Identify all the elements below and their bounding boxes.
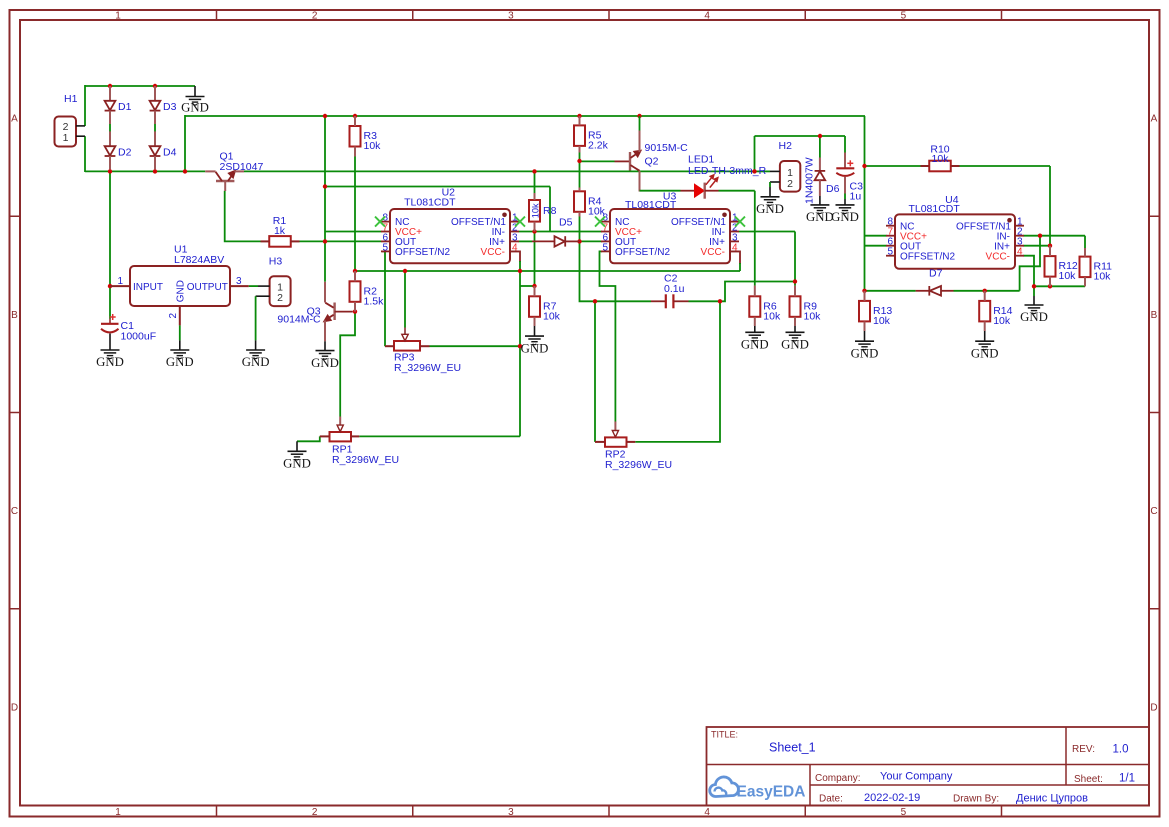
wire D1-D2 link	[109, 124, 111, 132]
wire U2 IN+ / D5 / U3 OUT y241.4	[519, 240, 533, 242]
U1 pin 1	[110, 285, 130, 287]
svg-text:LED-TH-3mm_R: LED-TH-3mm_R	[688, 165, 767, 177]
wire R7 branch y286	[520, 285, 535, 287]
svg-text:10k: 10k	[763, 310, 781, 322]
svg-text:Drawn By:: Drawn By:	[953, 794, 999, 805]
svg-text:VCC-: VCC-	[701, 247, 725, 258]
svg-text:2: 2	[312, 10, 318, 21]
svg-text:INPUT: INPUT	[133, 282, 163, 293]
diode D7	[916, 290, 929, 292]
svg-text:2: 2	[277, 292, 283, 304]
svg-text:B: B	[1151, 310, 1158, 321]
svg-text:10k: 10k	[932, 153, 950, 165]
wire U2 pin4 elbow	[510, 251, 520, 262]
svg-text:GND: GND	[311, 356, 339, 370]
wire R8 top lead to rail	[534, 171, 536, 193]
svg-text:D6: D6	[826, 183, 840, 195]
svg-text:C: C	[1150, 506, 1157, 517]
wire R10 net y166	[865, 165, 921, 167]
wire R1 to U2 OUT	[300, 240, 382, 242]
svg-text:H3: H3	[269, 256, 283, 268]
wire H1 pin2 riser	[84, 85, 86, 126]
diode D6	[819, 158, 821, 171]
trimmer RP3	[394, 341, 420, 351]
diode D3	[154, 86, 156, 101]
wire D5 junction down to C2 wire	[580, 241, 652, 301]
svg-text:C: C	[11, 506, 18, 517]
wire IN- feedback path	[1020, 236, 1040, 291]
ground (H2)	[769, 187, 771, 197]
resistor R10	[929, 161, 951, 172]
diode D5	[532, 240, 555, 242]
resistor R8 with rotated value	[529, 200, 540, 222]
svg-text:GND: GND	[741, 338, 769, 352]
svg-text:1N4007W: 1N4007W	[804, 157, 816, 204]
wire U3 pin4 elbow to bus	[730, 251, 740, 264]
svg-text:Q2: Q2	[645, 156, 659, 168]
ground (U1 pin2)	[179, 340, 181, 349]
wire corner x185	[184, 115, 186, 171]
svg-text:0.1u: 0.1u	[664, 283, 685, 295]
wire U4 VCC+ branch	[865, 235, 887, 237]
svg-text:D3: D3	[163, 101, 177, 113]
svg-text:VCC-: VCC-	[481, 247, 505, 258]
svg-text:2.2k: 2.2k	[588, 139, 609, 151]
svg-text:Company:: Company:	[815, 773, 861, 784]
svg-text:GND: GND	[181, 101, 209, 115]
svg-text:Your Company: Your Company	[880, 771, 953, 783]
svg-text:OFFSET/N2: OFFSET/N2	[615, 247, 670, 258]
ground (bridge top)	[194, 86, 196, 96]
wire C3 top lead	[844, 136, 846, 153]
wire Q2 collector to LED anode	[640, 190, 681, 192]
svg-text:1.5k: 1.5k	[364, 295, 385, 307]
svg-text:LED1: LED1	[688, 154, 714, 166]
ground (U4 VCC-)	[1033, 296, 1035, 305]
wire D2 junction down to C1 and U1 input	[109, 171, 111, 318]
svg-text:H2: H2	[779, 140, 793, 152]
wire U2 pin5 down to RP3 left	[382, 251, 386, 346]
svg-text:Sheet:: Sheet:	[1074, 774, 1103, 785]
wire D6 top lead	[819, 136, 821, 158]
svg-text:10k: 10k	[1059, 270, 1077, 282]
ground (R14)	[984, 331, 986, 341]
frame row ticks	[10, 215, 21, 217]
svg-text:4: 4	[512, 242, 518, 253]
svg-text:9014M-C: 9014M-C	[277, 313, 321, 325]
title block	[707, 727, 1150, 806]
junction dots	[108, 84, 112, 88]
svg-text:R_3296W_EU: R_3296W_EU	[394, 362, 461, 374]
svg-text:5: 5	[901, 10, 907, 21]
wire H3 pin2 to ground	[255, 296, 257, 340]
svg-text:OUTPUT: OUTPUT	[187, 282, 228, 293]
op-amp U3	[610, 209, 730, 263]
regulator U1	[130, 266, 230, 306]
svg-text:D: D	[11, 702, 18, 713]
wire R2 bottom to RP1 wiper	[340, 312, 355, 417]
wire U4 OUT branch	[865, 245, 887, 247]
wire D3-D4 link	[154, 124, 156, 132]
ground (C3)	[844, 199, 846, 205]
svg-text:2: 2	[312, 807, 318, 818]
diode D2	[109, 131, 111, 146]
svg-text:10k: 10k	[543, 310, 561, 322]
svg-text:1: 1	[63, 132, 69, 144]
wire main left rail y171	[85, 170, 205, 172]
svg-text:GND: GND	[756, 202, 784, 216]
resistor R3	[350, 126, 361, 147]
wire Q2 base	[580, 160, 615, 162]
U1 pin 3	[230, 285, 249, 287]
svg-text:3: 3	[236, 276, 242, 287]
diode D1	[109, 86, 111, 101]
LED LED1	[681, 190, 695, 192]
connector H1	[55, 117, 77, 147]
wire bridge top rail	[85, 85, 195, 87]
svg-text:H1: H1	[64, 93, 78, 105]
svg-text:1u: 1u	[850, 191, 862, 203]
svg-text:R_3296W_EU: R_3296W_EU	[332, 454, 399, 466]
svg-text:D2: D2	[118, 146, 132, 158]
svg-text:3: 3	[508, 10, 514, 21]
wire R5-R4 column x579.5	[579, 152, 581, 161]
svg-text:10k: 10k	[588, 205, 606, 217]
capacitor C3	[844, 153, 846, 168]
wire H2 pin1 riser	[754, 136, 756, 171]
svg-text:3: 3	[508, 807, 514, 818]
svg-text:GND: GND	[283, 457, 311, 471]
svg-text:1: 1	[117, 276, 123, 287]
svg-text:Денис Цупров: Денис Цупров	[1016, 793, 1088, 805]
connector H2	[780, 161, 800, 192]
svg-text:4: 4	[732, 242, 738, 253]
wire VCC- bus y271	[355, 270, 740, 272]
resistor R9	[790, 296, 801, 317]
wire Q1 base down to R1 level	[225, 191, 261, 242]
wire H2 net y136	[755, 135, 846, 137]
resistor R1	[269, 236, 291, 247]
svg-text:GND: GND	[176, 280, 187, 302]
svg-text:Sheet_1: Sheet_1	[769, 741, 816, 755]
wire RP2 left riser	[594, 301, 596, 442]
wire RP2 right riser	[635, 301, 720, 442]
svg-text:4: 4	[704, 10, 710, 21]
svg-text:R_3296W_EU: R_3296W_EU	[605, 459, 672, 471]
wire U4 VCC- to ground	[1023, 256, 1034, 287]
svg-text:1.0: 1.0	[1113, 744, 1129, 756]
resistor R5	[574, 125, 585, 145]
wire H1 pin1 drop	[84, 136, 86, 172]
wire right positive riser x865	[864, 116, 866, 166]
svg-text:L7824ABV: L7824ABV	[174, 254, 224, 266]
wire R3-R2 column x355	[354, 156, 356, 271]
diode D4	[154, 131, 156, 146]
svg-text:GND: GND	[831, 210, 859, 224]
svg-text:1k: 1k	[274, 225, 286, 237]
svg-text:OFFSET/N2: OFFSET/N2	[395, 247, 450, 258]
svg-text:TITLE:: TITLE:	[711, 730, 738, 740]
transistor Q1	[205, 170, 215, 172]
capacitor C1	[109, 319, 111, 324]
svg-text:5: 5	[901, 807, 907, 818]
svg-text:OFFSET/N2: OFFSET/N2	[900, 251, 955, 262]
svg-text:GND: GND	[96, 355, 124, 369]
svg-text:1: 1	[115, 807, 121, 818]
ground (R6)	[754, 326, 756, 332]
svg-text:D5: D5	[559, 217, 573, 229]
svg-text:5: 5	[382, 242, 388, 253]
wire vertical x520 (U2 VCC- / RP3 / RP1 loop)	[519, 271, 521, 436]
wire C2 right to IN- riser	[689, 282, 796, 302]
connector H3	[270, 276, 291, 306]
svg-text:GND: GND	[521, 341, 549, 355]
EasyEDA logo	[710, 777, 739, 797]
wire y186.5 to U3 VCC+	[325, 186, 550, 188]
wire U4 IN- net y235.7	[1023, 235, 1085, 237]
svg-text:GND: GND	[781, 338, 809, 352]
op-amp U4	[895, 214, 1015, 268]
svg-text:10k: 10k	[530, 203, 540, 218]
svg-text:2: 2	[787, 178, 793, 190]
wire H2 pin2 to ground	[769, 182, 771, 187]
svg-text:2022-02-19: 2022-02-19	[864, 792, 920, 804]
svg-text:D1: D1	[118, 101, 132, 113]
capacitor C2	[651, 300, 666, 302]
svg-text:VCC-: VCC-	[986, 251, 1010, 262]
svg-text:TL081CDT: TL081CDT	[404, 197, 456, 209]
svg-text:D: D	[1150, 702, 1157, 713]
wire RP3 wiper up to bus	[404, 271, 406, 328]
svg-text:1: 1	[115, 10, 121, 21]
ground (C1)	[109, 334, 111, 350]
svg-text:A: A	[11, 114, 18, 125]
svg-text:1000uF: 1000uF	[121, 331, 157, 343]
svg-text:10k: 10k	[804, 310, 822, 322]
resistor R7	[529, 296, 540, 317]
resistor R11	[1080, 257, 1091, 278]
ground (RP1)	[296, 441, 298, 451]
svg-text:B: B	[11, 310, 18, 321]
ground (H3)	[255, 340, 257, 349]
svg-text:GND: GND	[1020, 310, 1048, 324]
wire U3 pin5 to RP2 wiper	[600, 251, 616, 421]
ground (D6)	[819, 196, 821, 205]
wire U4 IN+ branch	[1023, 245, 1050, 247]
svg-text:2: 2	[168, 313, 179, 319]
wire R8 bottom to R7 top	[534, 232, 536, 287]
resistor R13	[859, 301, 870, 322]
svg-text:2SD1047: 2SD1047	[220, 161, 264, 173]
svg-text:GND: GND	[166, 355, 194, 369]
transistor Q2	[615, 160, 630, 162]
svg-text:10k: 10k	[1094, 271, 1112, 283]
svg-text:D4: D4	[163, 146, 177, 158]
ground (R13)	[864, 331, 866, 341]
wire U2 IN- to U3 VCC+ y231.5	[519, 231, 603, 233]
svg-text:1/1: 1/1	[1119, 773, 1135, 785]
svg-text:TL081CDT: TL081CDT	[625, 199, 677, 211]
wire U2 VCC+ branch	[325, 231, 382, 233]
trimmer RP1	[330, 432, 352, 441]
transistor Q3	[324, 282, 326, 303]
svg-text:Date:: Date:	[819, 794, 843, 805]
wire RP3 right to junction	[430, 345, 521, 347]
resistor R4	[574, 191, 585, 212]
svg-text:TL081CDT: TL081CDT	[908, 203, 960, 215]
svg-text:GND: GND	[806, 210, 834, 224]
op-amp U2	[390, 209, 510, 263]
wire vertical x325 (rail to Q3 base)	[324, 116, 326, 282]
wire RP1 right to x520 riser	[359, 435, 520, 437]
wire U3 IN- to R9	[739, 231, 796, 233]
svg-text:GND: GND	[242, 355, 270, 369]
svg-text:4: 4	[1017, 247, 1023, 258]
svg-text:R8: R8	[543, 205, 557, 217]
wire RP1 left to ground	[297, 436, 320, 441]
svg-text:5: 5	[602, 242, 608, 253]
svg-text:EasyEDA: EasyEDA	[737, 784, 806, 801]
svg-text:5: 5	[887, 247, 893, 258]
U1 pin 2	[179, 306, 181, 325]
svg-text:D7: D7	[929, 268, 943, 280]
trimmer RP2	[605, 437, 627, 446]
ground (R7)	[534, 326, 536, 336]
resistor R12	[1045, 256, 1056, 277]
ground (Q3)	[324, 341, 326, 350]
svg-text:10k: 10k	[873, 315, 891, 327]
svg-text:GND: GND	[971, 346, 999, 360]
resistor R14	[979, 301, 990, 322]
svg-text:4: 4	[704, 807, 710, 818]
wire R11 R12 bottom rail y286.3	[1034, 285, 1085, 287]
ground (R9)	[794, 326, 796, 332]
svg-text:10k: 10k	[993, 315, 1011, 327]
svg-text:9015M-C: 9015M-C	[645, 142, 689, 154]
resistor R6	[749, 296, 760, 317]
wire LED cathode to R6 column	[719, 190, 755, 192]
svg-text:A: A	[1151, 114, 1158, 125]
svg-text:GND: GND	[851, 346, 879, 360]
svg-text:10k: 10k	[364, 140, 382, 152]
svg-text:REV:: REV:	[1072, 744, 1095, 755]
wire top positive rail y116	[185, 115, 865, 117]
frame column ticks	[216, 10, 218, 20]
resistor R2	[350, 281, 361, 302]
wire D7 output net y290.8	[865, 290, 916, 292]
